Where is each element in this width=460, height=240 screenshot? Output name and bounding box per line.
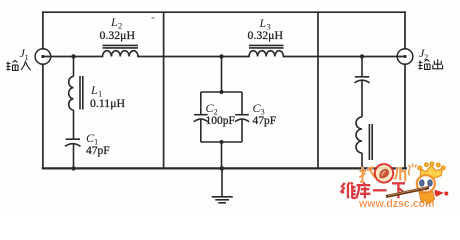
watermark text 维库一下 red with white halo xyxy=(341,182,405,198)
svg-text:0.11μH: 0.11μH xyxy=(90,96,126,110)
wire box right lower xyxy=(241,120,243,142)
mascot eyes xyxy=(420,180,425,186)
connector J2 xyxy=(397,49,413,65)
label 输入 (input) xyxy=(7,61,31,71)
watermark text 找 orange xyxy=(359,167,405,182)
wire C1 to bottom rail xyxy=(73,145,75,169)
node junction on main line at middle branch xyxy=(219,54,223,58)
wire branch 1 down to L1 xyxy=(73,57,75,77)
wire coil to bottom rail xyxy=(361,153,363,168)
wire box right upper xyxy=(241,92,243,114)
svg-text:0.32μH: 0.32μH xyxy=(248,28,284,42)
wire middle branch down to C2/C3 box xyxy=(221,57,223,93)
inductor L2 xyxy=(103,45,139,56)
label L1 xyxy=(90,83,102,99)
mascot mouth xyxy=(424,188,428,191)
capacitor C2 xyxy=(194,115,208,122)
mascot crown xyxy=(418,162,445,178)
svg-text:100pF: 100pF xyxy=(206,115,235,127)
watermark stamp circle xyxy=(375,164,393,182)
label C2 xyxy=(206,101,218,117)
watermark dzsc.com logo group xyxy=(341,162,449,210)
label C3 xyxy=(253,101,265,117)
wire capacitor to coil xyxy=(361,81,363,117)
svg-text:47pF: 47pF xyxy=(253,115,277,127)
label L2 xyxy=(110,15,122,31)
wire C2/C3 box bottom xyxy=(201,141,242,143)
wire ground vertical rail left-middle xyxy=(163,12,165,168)
node junction box top xyxy=(220,90,224,94)
wire box left lower xyxy=(200,120,202,142)
label L3 xyxy=(259,16,271,32)
wire C2/C3 parallel box top xyxy=(201,91,242,93)
label 输出 (output) xyxy=(419,59,443,69)
mascot body xyxy=(419,191,435,204)
wire ground stem xyxy=(221,168,223,196)
wire main line J1 to L2 xyxy=(43,56,103,58)
inductor L3 xyxy=(249,45,284,56)
wire L1 to C1 xyxy=(73,110,75,139)
inductor L1 xyxy=(69,76,83,110)
wire top rail xyxy=(43,11,405,13)
mascot raised hand xyxy=(409,164,417,176)
wire right vertical above J2 xyxy=(404,12,406,49)
wire box left upper xyxy=(200,92,202,114)
wire left vertical above J1 xyxy=(42,12,44,49)
capacitor C1 xyxy=(65,139,81,146)
stamp inner hand xyxy=(379,169,389,179)
wire left vertical below J1 xyxy=(42,64,44,168)
node junction bottom rail at branch 1 xyxy=(71,166,75,170)
node speck artifact near L2 label xyxy=(152,17,155,18)
capacitor C3 xyxy=(235,115,249,122)
label C1 xyxy=(86,131,98,147)
node junction on main line at L1 branch xyxy=(71,54,75,58)
inductor right (unlabeled) xyxy=(356,117,372,160)
capacitor right (unlabeled) xyxy=(355,77,370,83)
wire bottom rail xyxy=(43,167,406,169)
wire right branch down to capacitor xyxy=(361,57,363,77)
wire right vertical below J2 xyxy=(404,64,406,168)
node junction bottom rail right xyxy=(360,166,365,171)
label J2 xyxy=(419,46,428,62)
wire middle branch to bottom rail xyxy=(221,142,223,168)
ground xyxy=(212,197,233,203)
wire ground vertical rail right-middle xyxy=(317,12,319,168)
node junction on main line at right branch xyxy=(360,54,364,58)
node junction bottom rail middle xyxy=(220,166,225,171)
node junction box bottom xyxy=(220,140,224,144)
wire main line L3 to J2 xyxy=(284,56,406,58)
connector J1 xyxy=(35,49,51,65)
wire main line L2 to L3 xyxy=(138,56,249,58)
mascot face xyxy=(417,175,435,192)
label J1 xyxy=(20,46,29,62)
svg-text:47pF: 47pF xyxy=(86,145,110,157)
mascot hand red xyxy=(435,190,444,197)
svg-text:0.32μH: 0.32μH xyxy=(100,28,136,42)
mascot brush xyxy=(386,188,429,197)
